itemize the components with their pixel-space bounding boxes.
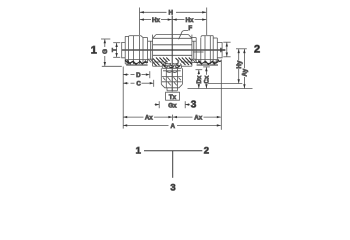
dimension H extension line left (138, 8, 140, 36)
branch dimension C rotated (203, 67, 210, 88)
dimension Hx left (140, 17, 172, 24)
schematic vertical line (172, 151, 174, 178)
svg-text:Cx: Cx (204, 75, 211, 83)
left extension line vertical (122, 67, 124, 129)
svg-text:F: F (188, 25, 192, 32)
branch collar (167, 88, 177, 91)
body lower-left hatch (153, 58, 170, 67)
dimension H (140, 10, 206, 17)
svg-text:Hy: Hy (236, 60, 243, 68)
svg-text:Hx: Hx (186, 17, 194, 24)
svg-text:A: A (170, 123, 175, 130)
label F with leader (179, 25, 193, 39)
dimension G (101, 39, 122, 66)
body hex (153, 35, 192, 67)
dimension Hy (208, 49, 243, 84)
svg-text:Dx: Dx (196, 75, 203, 83)
ferrule marks at necks (148, 60, 196, 63)
Hy Ay shared top tick (236, 48, 247, 50)
dimension H extension line right (206, 8, 208, 36)
branch rib (162, 62, 181, 68)
left rib (143, 38, 148, 63)
svg-text:3: 3 (191, 100, 197, 111)
vertical centerline (171, 16, 173, 92)
left nut lower shading (125, 60, 147, 65)
svg-text:D: D (136, 72, 141, 79)
svg-text:Gx: Gx (168, 102, 177, 109)
left nut front rim (125, 36, 128, 64)
svg-text:Tx: Tx (169, 94, 177, 101)
dimension C (123, 80, 154, 88)
dimension Ay (242, 49, 249, 88)
left collar (122, 42, 126, 57)
dimension Gx (155, 101, 190, 109)
dimension Hx right (173, 17, 207, 24)
schematic horizontal line (144, 150, 202, 152)
body lower-right hatch (176, 58, 192, 66)
dimension A (123, 123, 221, 130)
dimension D (123, 71, 150, 79)
svg-text:2: 2 (204, 146, 209, 157)
branch dimension D rotated (196, 70, 204, 89)
svg-text:1: 1 (91, 45, 97, 57)
svg-text:2: 2 (254, 43, 260, 55)
dimension Ax left (123, 115, 172, 122)
svg-text:Ax: Ax (194, 115, 202, 122)
right extension line vertical (220, 60, 222, 130)
svg-text:Hx: Hx (152, 17, 160, 24)
svg-text:T: T (112, 48, 119, 52)
svg-text:1: 1 (136, 146, 142, 157)
right nut lower shading (196, 60, 221, 65)
svg-text:G: G (102, 49, 109, 54)
fitting body: run centerline (122, 49, 222, 51)
branch nut (161, 68, 182, 88)
dimension T right (220, 42, 231, 57)
right nut front rim (213, 38, 217, 62)
svg-text:Ay: Ay (242, 68, 249, 76)
branch bottom extension line (188, 88, 253, 90)
Ax center tick (171, 115, 173, 121)
Tx box (166, 92, 180, 101)
right neck (192, 41, 204, 59)
dimension T left (112, 43, 121, 58)
left nut hex (129, 36, 143, 64)
right rib (192, 38, 196, 63)
right collar (217, 42, 222, 57)
branch neck (166, 60, 178, 66)
svg-text:H: H (168, 10, 173, 17)
svg-text:Ax: Ax (145, 115, 153, 122)
left neck (148, 41, 153, 59)
svg-text:C: C (136, 81, 141, 88)
svg-text:3: 3 (170, 182, 175, 193)
dimension Ax right (173, 115, 221, 122)
right nut hex (201, 36, 213, 65)
